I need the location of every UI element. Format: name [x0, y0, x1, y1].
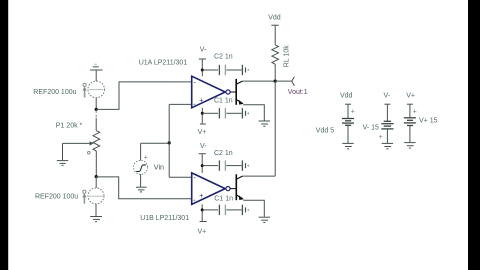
- potentiometer P1 20k body: [93, 131, 100, 151]
- svg-text:C1 1n: C1 1n: [214, 195, 233, 202]
- svg-text:+: +: [193, 198, 196, 204]
- U1A V- node junction: [201, 69, 204, 72]
- node B junction: [95, 175, 98, 178]
- ground (Vin): [136, 187, 147, 192]
- wire Q1 emitter to ground: [243, 105, 264, 121]
- wire Q1 collector to node Vout: [242, 80, 275, 82]
- svg-text:V-: V-: [200, 46, 207, 53]
- wire node A to U1A inverting input: [96, 82, 191, 110]
- power bar symbol above REF200 IS1: [90, 64, 103, 81]
- svg-text:Vdd: Vdd: [340, 93, 353, 100]
- svg-text:+: +: [413, 108, 417, 115]
- transistor Q1 (U1A output stage): [236, 79, 243, 105]
- svg-text:Vdd: Vdd: [268, 14, 281, 21]
- svg-text:RL 10k: RL 10k: [284, 45, 291, 67]
- tie point symbol (C2 U1B): [242, 160, 249, 170]
- ground (pot wiper): [57, 161, 68, 166]
- svg-text:V+: V+: [198, 228, 207, 235]
- svg-text:+: +: [199, 193, 203, 200]
- current source IS2 REF200 (bottom): [95, 177, 97, 188]
- potentiometer P1 wiper marker circle: [88, 151, 91, 154]
- ground (Q2 emitter): [259, 217, 270, 222]
- transistor Q2 (U1B output stage): [236, 174, 243, 200]
- wire Q2 collector to vertical bus: [243, 175, 276, 177]
- svg-text:+: +: [351, 108, 355, 115]
- svg-text:C1 1n: C1 1n: [214, 97, 233, 104]
- tie point symbol (C1 U1A): [242, 108, 249, 118]
- op-amp U1B LP211/301 triangle: [192, 173, 226, 205]
- ground (Q1 emitter): [259, 121, 270, 126]
- svg-text:V-: V-: [384, 93, 391, 100]
- wire U1B output to Q2 base: [230, 188, 236, 190]
- voltage source VG1 Vin: [134, 143, 148, 187]
- wire Q2 emitter to ground: [243, 200, 264, 217]
- svg-text:REF200 100u: REF200 100u: [35, 193, 78, 200]
- ground (V+ battery): [404, 143, 415, 148]
- svg-text:U1B LP211/301: U1B LP211/301: [140, 215, 189, 222]
- U1A V+ power pin: [200, 108, 206, 124]
- node A junction: [95, 108, 98, 111]
- svg-text:C2 1n: C2 1n: [214, 150, 233, 157]
- tie point symbol (C2 U1A): [242, 65, 249, 75]
- Vdd rail bar: [271, 25, 279, 45]
- svg-text:V-: V-: [200, 143, 207, 150]
- ground (IS2): [90, 217, 102, 222]
- wire IS1 bottom to node A: [95, 98, 97, 110]
- U1A V+ node junction: [201, 112, 204, 115]
- potentiometer P1 bottom lead: [95, 151, 97, 177]
- U1B V- node junction: [201, 164, 204, 167]
- resistor RL 10k: [272, 45, 279, 64]
- wire Vin to node C: [141, 142, 170, 144]
- op-amp U1A LP211/301 triangle: [192, 76, 226, 108]
- ground (V- battery): [382, 143, 393, 148]
- wire wiper to ground: [62, 143, 64, 160]
- svg-text:V+ 15: V+ 15: [419, 117, 438, 124]
- right letterbox bar: [468, 0, 480, 270]
- ground (Vdd battery): [342, 143, 353, 148]
- svg-text:P1 20k *: P1 20k *: [56, 123, 83, 130]
- U1A output open-collector circle: [226, 90, 230, 94]
- current source IS1 REF200 (top): [83, 81, 105, 98]
- potentiometer P1 wiper arrow: [63, 142, 91, 144]
- wire to U1A non-inverting input: [169, 103, 191, 105]
- wire node B to U1B non-inverting input: [96, 177, 191, 199]
- tie point symbol (C1 U1B): [242, 205, 249, 215]
- svg-text:Vdd 5: Vdd 5: [316, 127, 334, 134]
- svg-text:U1A LP211/301: U1A LP211/301: [139, 60, 188, 67]
- U1B V+ power pin: [200, 204, 207, 221]
- svg-text:Vout:1: Vout:1: [288, 89, 308, 96]
- svg-text:+: +: [379, 134, 383, 141]
- svg-text:+: +: [199, 98, 203, 105]
- potentiometer P1 top lead (dashed then solid): [95, 111, 97, 119]
- wire to U1B inverting input: [169, 176, 191, 178]
- wire U1A output to Q1 base: [230, 91, 236, 93]
- wire IS2 to ground: [95, 204, 97, 216]
- wire vertical bus node C: [168, 104, 170, 177]
- svg-text:V+: V+: [406, 93, 415, 100]
- svg-text:V- 15: V- 15: [363, 124, 379, 131]
- svg-text:C2 1n: C2 1n: [214, 54, 233, 61]
- svg-text:+: +: [193, 102, 196, 108]
- U1B V+ node junction: [201, 208, 204, 211]
- svg-text:Vin: Vin: [154, 163, 164, 172]
- svg-text:REF200 100u: REF200 100u: [33, 89, 76, 96]
- node C junction: [168, 141, 171, 144]
- svg-text:V+: V+: [198, 129, 207, 136]
- wire RL to node Vout: [274, 64, 276, 81]
- svg-text:+: +: [144, 154, 148, 161]
- U1B output open-collector circle: [226, 187, 230, 191]
- wire vertical bus Vout to Q2 collector: [274, 81, 276, 176]
- node Vout junction: [274, 80, 277, 83]
- output pin Vout:1: [275, 80, 292, 82]
- left letterbox bar: [0, 0, 8, 270]
